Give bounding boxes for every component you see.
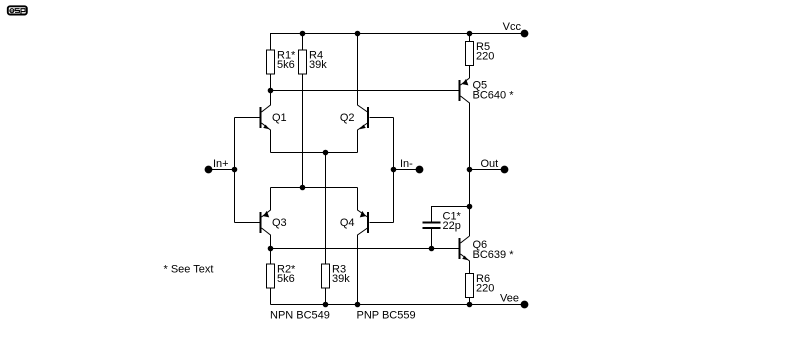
junction R3 tap [323, 150, 328, 155]
transistor Q4 [340, 188, 394, 305]
Vcc terminal [503, 21, 528, 37]
junction rail at R6 [467, 302, 472, 307]
lower base wire Q3 collector to Q6 base [271, 248, 459, 250]
svg-text:NPN BC549: NPN BC549 [270, 310, 330, 322]
Vee terminal [500, 293, 528, 308]
transistor Q1 [235, 91, 287, 153]
junction on rail at R5 [467, 31, 472, 36]
transistor Q2 [340, 34, 394, 153]
junction R1/Q1 collector [268, 88, 273, 93]
svg-text:Q1: Q1 [272, 112, 287, 124]
In- base vertical wire [393, 118, 395, 223]
resistor R6 220 [466, 273, 495, 305]
logo [8, 6, 27, 15]
junction C1 bottom [429, 246, 434, 251]
In+ base vertical wire [234, 118, 236, 223]
svg-text:Vee: Vee [500, 293, 519, 305]
resistor R2 5k6 [267, 249, 297, 305]
bottom rail wire (Vee) [271, 304, 525, 306]
junction on rail at R4 [300, 31, 305, 36]
Out terminal [467, 158, 508, 173]
transistor Q5 [460, 78, 515, 170]
resistor R1 5k6 [267, 50, 297, 91]
junction R2/Q3 collector [268, 246, 273, 251]
svg-text:Vcc: Vcc [503, 21, 522, 33]
transistor Q3 [235, 188, 287, 249]
resistor R5 220 [466, 34, 495, 79]
transistor Q6 [460, 236, 515, 274]
junction rail at R3 [323, 302, 328, 307]
wire R1 bottom to Q5 base [271, 90, 459, 92]
svg-text:5k6: 5k6 [277, 59, 295, 71]
svg-text:BC640 *: BC640 * [473, 90, 515, 102]
svg-text:PNP BC559: PNP BC559 [357, 310, 416, 322]
svg-text:Q2: Q2 [340, 112, 355, 124]
junction rail at Q4 collector [355, 302, 360, 307]
resistor R3 39k [322, 153, 351, 305]
In+ terminal [205, 158, 237, 173]
NPN emitter coupling wire [271, 152, 358, 154]
In- terminal [391, 158, 423, 173]
svg-text:39k: 39k [332, 273, 350, 285]
top rail wire (Vcc) [271, 34, 525, 51]
PNP emitter coupling wire [271, 187, 358, 189]
svg-text:Out: Out [481, 158, 499, 170]
svg-text:22p: 22p [443, 220, 461, 232]
svg-text:220: 220 [476, 283, 494, 295]
svg-text:In+: In+ [213, 158, 229, 170]
svg-text:* See Text: * See Text [164, 264, 214, 276]
svg-text:220: 220 [476, 51, 494, 63]
junction R4 tap [300, 185, 305, 190]
capacitor C1 22p [423, 207, 470, 249]
svg-text:Q3: Q3 [272, 217, 287, 229]
svg-text:BC639 *: BC639 * [473, 249, 515, 261]
svg-text:In-: In- [400, 158, 413, 170]
resistor R4 39k [299, 34, 328, 188]
junction C1 top [467, 204, 472, 209]
svg-text:Q4: Q4 [340, 217, 355, 229]
wire Out to Q6 collector [469, 170, 471, 237]
svg-text:5k6: 5k6 [277, 273, 295, 285]
junction on rail at Q2 collector [355, 31, 360, 36]
svg-text:39k: 39k [309, 59, 327, 71]
